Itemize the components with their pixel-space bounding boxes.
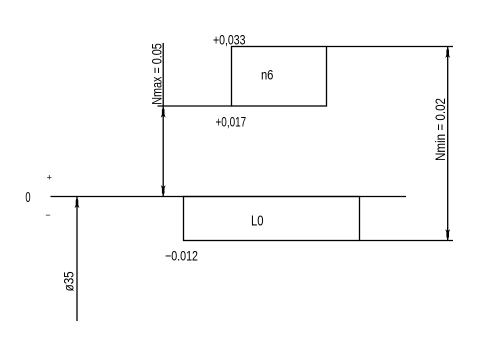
arrowhead down (Nmin, at bottom extension line) bbox=[445, 229, 450, 240]
svg-text:−0.012: −0.012 bbox=[165, 249, 198, 264]
svg-text:+0,033: +0,033 bbox=[213, 33, 246, 48]
svg-text:+0,017: +0,017 bbox=[216, 114, 247, 129]
arrowhead up (Nmax, at n6 bottom line) bbox=[161, 107, 166, 118]
diameter leader line for ø35 bbox=[76, 197, 78, 321]
tolerance zone L0 bbox=[184, 197, 360, 241]
arrowhead up (ø35, at zero line) bbox=[75, 197, 80, 208]
svg-text:n6: n6 bbox=[261, 67, 274, 82]
svg-text:Nmax = 0.05: Nmax = 0.05 bbox=[149, 43, 164, 105]
dimension line Nmax bbox=[162, 43, 164, 197]
dimension line Nmin bbox=[447, 47, 449, 241]
svg-text:L0: L0 bbox=[251, 213, 264, 230]
zero line (reference line 0) bbox=[51, 196, 407, 198]
svg-text:0: 0 bbox=[25, 190, 30, 206]
arrowhead up (Nmin, at top extension line) bbox=[445, 47, 450, 58]
svg-text:−: − bbox=[45, 210, 50, 220]
extension line from L0 bottom toward Nmin dimension line bbox=[360, 240, 454, 242]
arrowhead down (Nmax, at zero line) bbox=[161, 185, 166, 196]
tolerance zone n6 bbox=[232, 47, 327, 107]
svg-text:+: + bbox=[47, 172, 52, 182]
svg-text:Nmin = 0.02: Nmin = 0.02 bbox=[433, 98, 448, 161]
extension line from n6 top toward Nmin dimension line bbox=[327, 46, 454, 48]
svg-text:ø35: ø35 bbox=[62, 271, 77, 291]
extension line from n6 bottom toward Nmax dimension line bbox=[158, 105, 232, 107]
